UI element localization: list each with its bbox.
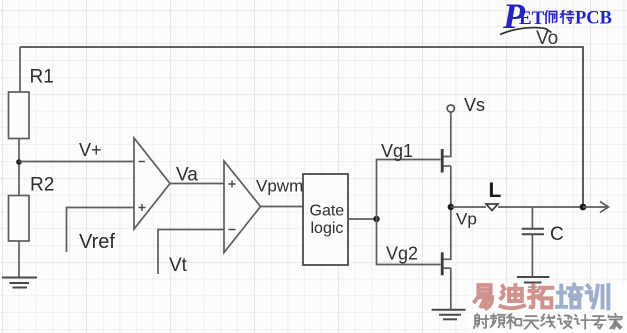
wire Vpwm (261, 206, 304, 208)
svg-text:Vp: Vp (456, 210, 477, 229)
svg-text:Vt: Vt (169, 255, 188, 276)
node Vp junction dot (448, 204, 454, 210)
wire Vs to Q1 drain (444, 112, 451, 156)
svg-text:Vref: Vref (79, 231, 115, 253)
ground below Q2 (432, 310, 466, 320)
comparator U2 plus sign (229, 181, 236, 188)
svg-text:PCB: PCB (575, 9, 612, 29)
wire R1 to R2 (18, 139, 20, 196)
wire left vertical from top corner to R1 (19, 47, 21, 92)
resistor R2 (9, 196, 30, 242)
watermark background band (468, 284, 627, 333)
capacitor C plates (522, 229, 544, 235)
svg-text:C: C (550, 224, 564, 245)
svg-text:R2: R2 (30, 175, 54, 196)
wire Va (170, 183, 224, 185)
watermark char jia1 (609, 314, 622, 329)
svg-text:L: L (489, 179, 502, 202)
watermark char tuo4 (529, 285, 552, 307)
watermark char tian1 (524, 316, 539, 329)
wire Vp to inductor (451, 206, 486, 208)
watermark char pei2 (557, 285, 581, 308)
wire Vg1 (377, 160, 441, 220)
node gate drive junction dot (373, 216, 379, 222)
transistor Q1 source lead (444, 165, 451, 167)
op-amp U1 plus sign (139, 204, 146, 211)
watermark char zhuan1 (591, 316, 606, 329)
op-amp U1 error amplifier (134, 138, 170, 229)
watermark char xian4 (541, 314, 555, 328)
output arrowhead (600, 202, 609, 213)
terminal Vs circle (447, 105, 454, 112)
watermark char pin2 (491, 314, 506, 327)
wire gate logic output (348, 218, 377, 220)
svg-text:Va: Va (176, 165, 198, 186)
wire R2 to ground (18, 241, 20, 278)
node Vo junction dot (580, 204, 587, 211)
svg-text:ET: ET (519, 8, 545, 29)
svg-text:V+: V+ (79, 140, 102, 160)
wire feedback top from Vo node to R1 top (20, 47, 583, 205)
svg-text:Vg2: Vg2 (386, 244, 418, 264)
node V+ junction dot (16, 159, 22, 165)
watermark char yi4 (475, 285, 492, 308)
wire Vg2 (377, 219, 441, 265)
wire Vref (67, 208, 135, 253)
ground below R2 (2, 278, 37, 288)
watermark char he2 (507, 314, 522, 328)
wire Vt (158, 230, 224, 275)
wire inductor to output node (498, 206, 583, 208)
wire Q1 source to Vp to Q2 drain (444, 166, 451, 259)
capacitor C top lead (531, 207, 533, 228)
watermark char she4 (474, 314, 489, 328)
transistor Q1 high-side MOSFET (441, 149, 444, 173)
svg-text:Vs: Vs (464, 95, 485, 115)
watermark char ji4 (575, 315, 590, 329)
svg-text:logic: logic (311, 220, 344, 237)
comparator U2 (224, 161, 261, 253)
resistor R1 (9, 92, 30, 139)
svg-text:Gate: Gate (310, 203, 345, 220)
transistor Q2 low-side MOSFET (441, 252, 444, 275)
watermark char te4 (560, 11, 573, 24)
op-amp U1 minus sign (139, 161, 146, 163)
svg-text:Vg1: Vg1 (381, 141, 413, 161)
ground below capacitor (517, 277, 550, 287)
capacitor C bottom lead (531, 234, 533, 277)
transistor Q2 source lead (444, 267, 451, 269)
comparator U2 minus sign (229, 229, 236, 231)
svg-text:R1: R1 (30, 67, 54, 88)
logo swoosh (500, 28, 552, 35)
gate logic block U3 (303, 174, 348, 265)
wire V+ node to op-amp inverting input (19, 161, 134, 163)
inductor L symbol (486, 204, 498, 211)
svg-text:Vpwm: Vpwm (256, 177, 303, 196)
watermark char pei4 (545, 11, 557, 23)
watermark char di2 (501, 285, 524, 308)
watermark char she4b (558, 315, 572, 329)
wire Q2 source to ground (450, 268, 452, 310)
watermark char xun4 (587, 285, 609, 308)
wire output arrow (583, 206, 607, 208)
svg-text:Vo: Vo (536, 28, 558, 49)
